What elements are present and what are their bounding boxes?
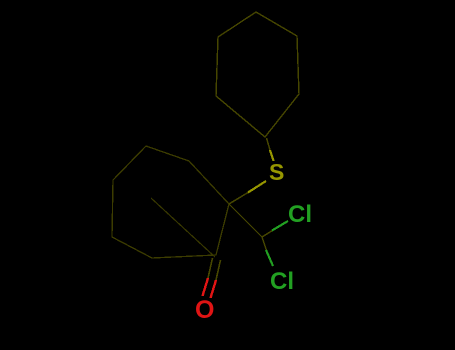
C=O double bond oxygen half (red) (203, 278, 217, 298)
bond C to Cl 2 : chlorine half (266, 250, 273, 266)
bond phenyl to S : carbon half (267, 138, 271, 150)
svg-text:O: O (195, 296, 214, 324)
bond S to C2 : carbon half (229, 193, 248, 205)
C=O double bond carbon half (dark) (208, 258, 221, 280)
bond C to Cl 1 : carbon half (262, 230, 274, 238)
bridge diagonal bond inside ring (151, 198, 215, 257)
bond S to C2 : sulfur half (248, 181, 266, 193)
bond C2 to CHCl2 carbon (229, 204, 262, 237)
svg-text:Cl: Cl (288, 201, 312, 228)
bond C to Cl 2 : carbon half (262, 237, 267, 252)
seven-membered ring (cycloheptanone) (112, 146, 229, 258)
bond phenyl to S : sulfur half (270, 150, 274, 161)
svg-text:S: S (269, 159, 284, 185)
bond C to Cl 1 : chlorine half (272, 221, 288, 231)
svg-text:Cl: Cl (270, 268, 294, 295)
benzene ring (phenyl of phenylthio group) (216, 12, 299, 137)
